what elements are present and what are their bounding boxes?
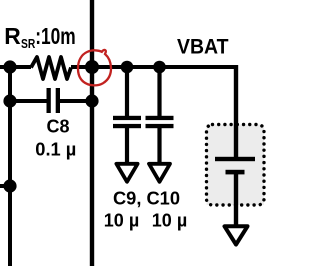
- svg-text:C8: C8: [46, 117, 69, 137]
- node: junction dot left stub: [3, 179, 16, 192]
- wire: battery to ground: [234, 174, 238, 226]
- node: junction dot C9 tap: [121, 61, 134, 74]
- svg-text::10m: :10m: [35, 23, 75, 49]
- wire: left stub at y=186: [0, 184, 10, 188]
- node: junction dot central rail / main rail (highlighted): [85, 60, 99, 74]
- svg-text:SR: SR: [21, 37, 35, 51]
- svg-text:C9, C10: C9, C10: [113, 189, 180, 209]
- capacitor C8 plates: [47, 88, 51, 113]
- battery box (dashed, gray fill): [207, 125, 265, 206]
- resistor RSR zigzag: [31, 57, 71, 79]
- wire: C8 branch left segment: [10, 99, 47, 103]
- node: junction dot C8 right: [85, 94, 98, 107]
- capacitor C9 top wire: [125, 67, 129, 116]
- highlight: hand-drawn red circle around node: [78, 50, 111, 85]
- svg-text:10 µ: 10 µ: [152, 211, 187, 231]
- wire: resistor to VBAT corner: [71, 65, 236, 69]
- wire: C8 branch right segment: [60, 99, 92, 103]
- capacitor C9 plates: [113, 116, 141, 120]
- battery short plate: [226, 170, 245, 175]
- ground for C9 (open arrow): [116, 164, 137, 182]
- node: junction dot C8 left: [3, 94, 16, 107]
- capacitor C10 top wire: [157, 67, 161, 116]
- label RSR:10m: [4, 23, 75, 51]
- wire: main horizontal rail y=67 (left stub to resistor): [0, 65, 31, 69]
- capacitor C10 plates: [146, 116, 174, 120]
- ground for battery (open arrow): [225, 226, 248, 244]
- ground for C10 (open arrow): [149, 164, 170, 182]
- svg-text:10 µ: 10 µ: [104, 211, 139, 231]
- wire: left vertical rail x=10: [8, 67, 12, 266]
- svg-text:VBAT: VBAT: [177, 36, 229, 59]
- node: junction dot C10 tap: [153, 61, 166, 74]
- svg-text:0.1 µ: 0.1 µ: [35, 140, 76, 160]
- wire: central vertical rail x=92: [90, 0, 94, 266]
- wire: VBAT drop into battery box: [234, 65, 238, 159]
- capacitor C10 bottom wire: [157, 128, 161, 164]
- svg-text:R: R: [4, 23, 21, 49]
- capacitor C9 bottom wire: [125, 128, 129, 164]
- battery long plate: [215, 157, 255, 161]
- node: junction dot left rail / main rail: [3, 60, 16, 73]
